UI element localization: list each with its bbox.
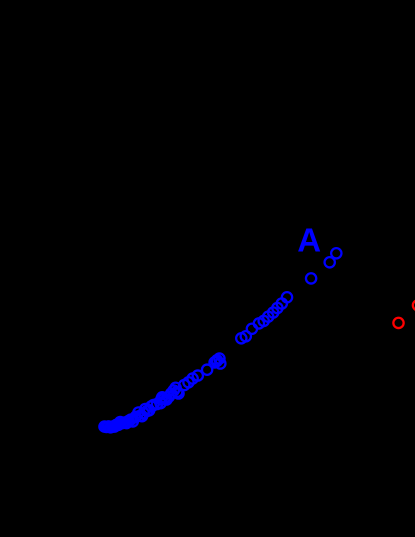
- blue data series: dense lower band of open-circle markers: [99, 380, 189, 433]
- red data point (full circle): [393, 318, 403, 328]
- red data point (clipped at right edge): [413, 300, 415, 310]
- blue data point (isolated, below label A): [306, 273, 316, 283]
- blue data series: upper chain of markers: [236, 292, 292, 343]
- blue data point pair right of label A: [325, 248, 342, 267]
- blue data series: mid chain of markers: [183, 353, 225, 387]
- svg-text:A: A: [297, 222, 321, 259]
